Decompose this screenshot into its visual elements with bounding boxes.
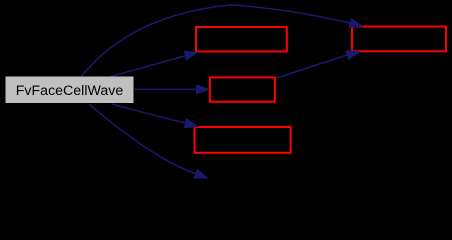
svg-text:FvFaceCellWave: FvFaceCellWave xyxy=(16,83,124,99)
